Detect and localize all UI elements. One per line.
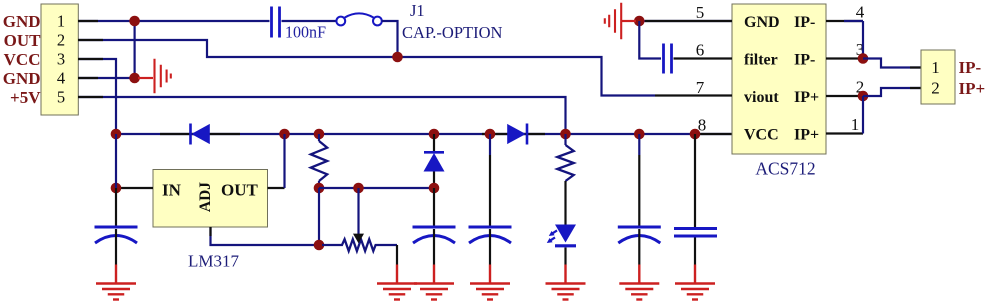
capacitor C4 (618, 134, 661, 284)
node GND junction pin4 (129, 73, 140, 84)
wire cap to jumper J1 (282, 20, 337, 22)
svg-text:IP+: IP+ (794, 127, 819, 144)
IC U2 ACS712 body (732, 4, 826, 154)
net label IP- (959, 58, 982, 77)
wire ADJ set line y188 (319, 187, 434, 189)
pin number 5 (696, 3, 705, 22)
node junction wiper (353, 183, 364, 194)
node rail junction x695 (690, 129, 701, 140)
node junction zener bottom (429, 183, 440, 194)
svg-text:IP+: IP+ (794, 89, 819, 106)
value label 100nF (285, 23, 326, 42)
svg-text:OUT: OUT (221, 181, 259, 200)
wire GND vertical pin1-pin4 tie (134, 21, 136, 78)
ground C5 (675, 284, 715, 300)
connector CN1 body (41, 4, 78, 115)
wire pin5 +5V to rail (78, 97, 566, 134)
node junction pin5/filter cap (634, 16, 645, 27)
resistor R1 (311, 134, 327, 188)
wire filter cap to pin6 (674, 57, 733, 59)
pin label IP- row1 (794, 14, 815, 31)
connector CN1 pin numbers 1-5 (57, 12, 65, 107)
potentiometer R3 (322, 188, 397, 251)
pin label GND (744, 14, 780, 31)
node rail junction x319 (314, 129, 325, 140)
svg-text:2: 2 (57, 31, 65, 50)
svg-text:1: 1 (931, 58, 940, 77)
pin label viout (744, 89, 779, 106)
pin label ADJ (197, 182, 214, 212)
label CAP.-OPTION (402, 23, 503, 42)
pin number 8 (698, 116, 707, 135)
resistor R2 (557, 134, 573, 225)
pin number 1 (851, 115, 860, 134)
svg-text:J1: J1 (410, 1, 425, 20)
svg-text:1: 1 (851, 115, 860, 134)
node junction R1 bottom (314, 183, 325, 194)
wire pin3 VCC to rail (78, 59, 116, 134)
node rail junction x284.5 (279, 129, 290, 140)
CN2 pin number 2 (931, 79, 940, 98)
svg-text:GND: GND (744, 14, 780, 31)
pin label IN (162, 181, 182, 200)
svg-text:viout: viout (744, 89, 779, 106)
svg-text:CAP.-OPTION: CAP.-OPTION (402, 23, 503, 42)
svg-text:2: 2 (931, 79, 940, 98)
capacitor C2 (413, 188, 456, 284)
pin label IP- row2 (794, 52, 815, 69)
wire jumper to OUT net (382, 21, 398, 57)
ground C2 (414, 284, 454, 300)
svg-text:5: 5 (57, 88, 65, 107)
pin label IP+ row3 (794, 89, 819, 106)
wire pin4 IP- (826, 21, 863, 59)
pin number 7 (696, 78, 705, 97)
ground pot (377, 284, 417, 300)
node rail junction x490 (485, 129, 496, 140)
pin label IP+ row4 (794, 127, 819, 144)
wire pin4 GND stub (78, 77, 135, 79)
svg-text:filter: filter (744, 52, 778, 69)
wire to CN2 pin2 (863, 88, 921, 96)
wire viout pin7 stub (655, 94, 732, 96)
LED D4 (547, 225, 576, 246)
diode D1 (191, 124, 210, 145)
node rail junction x565.5 (560, 129, 571, 140)
ground C3 (470, 284, 510, 300)
wire main rail (116, 133, 732, 135)
label LM317 (188, 252, 240, 271)
svg-text:ADJ: ADJ (197, 182, 214, 212)
wire LED to ground (564, 248, 566, 284)
wire ADJ pin (211, 227, 320, 245)
wire vertical to pot left (318, 188, 320, 245)
capacitor C1 (95, 188, 138, 284)
node rail junction x639.3 (634, 129, 645, 140)
wire pin1 GND to 100nF cap (78, 20, 270, 22)
wire to CN2 pin1 (863, 59, 921, 68)
label J1 (410, 1, 425, 20)
svg-text:GND: GND (3, 12, 41, 31)
pin label VCC (744, 127, 779, 144)
svg-text:ACS712: ACS712 (755, 159, 815, 179)
svg-text:7: 7 (696, 78, 705, 97)
zener diode D3 (424, 134, 445, 188)
wire IN pin (116, 187, 153, 189)
diode D2 (507, 124, 527, 145)
svg-text:3: 3 (57, 50, 65, 69)
svg-text:100nF: 100nF (285, 23, 326, 42)
svg-text:OUT: OUT (4, 31, 42, 50)
ground symbol left-pointing at pin5 (605, 3, 636, 40)
svg-text:IP-: IP- (794, 52, 815, 69)
capacitor C7 filter (664, 44, 672, 74)
svg-text:8: 8 (698, 116, 707, 135)
wire filter cap branch (639, 21, 661, 59)
connector CN2 body (921, 50, 955, 104)
wire OUT pin to rail (268, 134, 285, 188)
svg-text:IP+: IP+ (959, 79, 985, 98)
svg-text:+5V: +5V (10, 88, 41, 107)
pin label filter (744, 52, 778, 69)
ground C4 (619, 284, 659, 300)
net label IP+ (959, 79, 985, 98)
pin number 4 (856, 3, 865, 22)
wire pin2 OUT net to viout (78, 40, 655, 96)
wire rail to IN junction (115, 134, 117, 188)
wire pot right terminal down (396, 245, 398, 284)
node junction pin3/4 (858, 53, 869, 64)
svg-text:VCC: VCC (744, 127, 779, 144)
node junction pin1/2 (858, 91, 869, 102)
pin label OUT (221, 181, 259, 200)
svg-text:4: 4 (57, 69, 65, 88)
svg-text:4: 4 (856, 3, 865, 22)
svg-text:5: 5 (696, 3, 705, 22)
svg-text:1: 1 (57, 12, 65, 31)
wire pin1 IP+ (826, 96, 863, 134)
wire ACS712 pin5 GND (639, 20, 732, 22)
node junction J1/OUT (392, 52, 403, 63)
regulator U1 LM317 body (153, 170, 268, 228)
label ACS712 (755, 159, 815, 179)
pin number 3 (856, 40, 865, 59)
node rail junction x434 (429, 129, 440, 140)
CN2 pin number 1 (931, 58, 940, 77)
wire pin3 IP- (826, 57, 863, 59)
jumper J1 (336, 13, 381, 25)
node GND junction pin1 (129, 16, 140, 27)
svg-text:GND: GND (3, 69, 41, 88)
svg-text:LM317: LM317 (188, 252, 240, 271)
wire pin2 IP+ (826, 95, 863, 97)
ground symbol right-pointing at CN1 pin4 (138, 59, 171, 94)
ground LED (546, 284, 586, 300)
svg-text:IP-: IP- (959, 58, 982, 77)
capacitor C6 100nF plates (272, 7, 280, 38)
node junction ADJ/pot (314, 240, 325, 251)
svg-text:VCC: VCC (4, 50, 41, 69)
node junction IN/C1 (111, 183, 122, 194)
capacitor C3 (469, 134, 512, 284)
net labels GND OUT VCC GND +5V (3, 12, 41, 107)
pin number 6 (696, 41, 705, 60)
svg-text:6: 6 (696, 41, 705, 60)
ground C1 (96, 284, 136, 300)
pin number 2 (856, 78, 865, 97)
svg-text:IP-: IP- (794, 14, 815, 31)
capacitor C5 (674, 134, 717, 284)
node rail junction x116 (111, 129, 122, 140)
svg-text:IN: IN (162, 181, 182, 200)
